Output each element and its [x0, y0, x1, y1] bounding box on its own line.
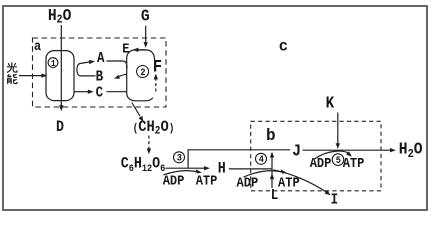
ADP->ATP arc (5) — [315, 151, 350, 159]
wire A into shape 2 — [107, 61, 127, 69]
circled 3 — [174, 152, 185, 163]
svg-text:E: E — [122, 41, 129, 57]
svg-text:c: c — [279, 37, 288, 55]
svg-text:2: 2 — [140, 67, 146, 79]
shape 2 (dark reactions, rounded, solid part) — [127, 50, 155, 101]
svg-text:ADP: ADP — [310, 155, 332, 171]
shape 1 (light reactions, rounded) — [46, 51, 74, 101]
svg-text:5: 5 — [336, 155, 342, 167]
dashed arrow (CH2O) down to glucose — [148, 136, 150, 151]
circled 1 — [48, 58, 58, 68]
svg-text:(CH2O): (CH2O) — [133, 119, 175, 138]
svg-text:ATP: ATP — [196, 173, 218, 189]
wire from shape 2 back to B (arrow) — [118, 74, 127, 77]
svg-text:G: G — [141, 7, 150, 26]
circled 2 — [137, 66, 149, 78]
curve junction down to I — [273, 170, 327, 193]
svg-text:K: K — [326, 94, 335, 113]
svg-text:L: L — [271, 188, 278, 204]
ADP->ATP arc (3) — [164, 171, 199, 175]
arrow to E — [137, 49, 146, 51]
wire H2O down through chloroplast — [60, 25, 62, 109]
box a (dashed) — [33, 38, 167, 107]
wire shape1 to C — [74, 91, 88, 93]
wire J to H2O right — [303, 149, 392, 151]
arrow K down to line — [337, 113, 339, 145]
box b (dashed) — [251, 121, 381, 191]
arrow glucose to H — [166, 167, 206, 169]
wire C into shape 2 — [107, 91, 127, 93]
svg-text:ADP: ADP — [163, 173, 185, 189]
svg-text:D: D — [56, 119, 64, 136]
svg-text:H: H — [218, 161, 226, 178]
wire loop B up to A — [77, 62, 96, 76]
svg-text:3: 3 — [177, 152, 183, 164]
wire branch up and right to J — [188, 150, 290, 168]
ADP->ATP arc (4) — [244, 171, 284, 177]
svg-text:A: A — [97, 51, 105, 67]
wire H to junction — [229, 168, 272, 170]
svg-text:I: I — [331, 193, 338, 209]
arrow shape2 to (CH2O) — [132, 103, 140, 117]
svg-text:C: C — [96, 86, 103, 102]
arrowhead to D — [59, 105, 63, 111]
svg-text:4: 4 — [259, 154, 265, 166]
shape 2 dashed right edge arrow up to F — [155, 77, 157, 92]
svg-text:ADP: ADP — [237, 175, 259, 191]
circled 4 — [256, 153, 267, 164]
svg-text:a: a — [34, 38, 41, 54]
svg-text:b: b — [266, 126, 276, 145]
svg-text:J: J — [292, 141, 301, 160]
label 光能 (light energy), drawn strokes — [7, 62, 17, 84]
svg-text:1: 1 — [51, 58, 56, 69]
svg-text:ATP: ATP — [343, 155, 365, 171]
svg-text:B: B — [96, 70, 103, 86]
arrow light energy into shape 1 — [19, 75, 43, 77]
arrow G down into shape 2 — [145, 26, 147, 44]
svg-text:F: F — [153, 58, 162, 78]
vertical arrow L up to main line — [271, 153, 273, 188]
circled 5 — [332, 154, 344, 166]
